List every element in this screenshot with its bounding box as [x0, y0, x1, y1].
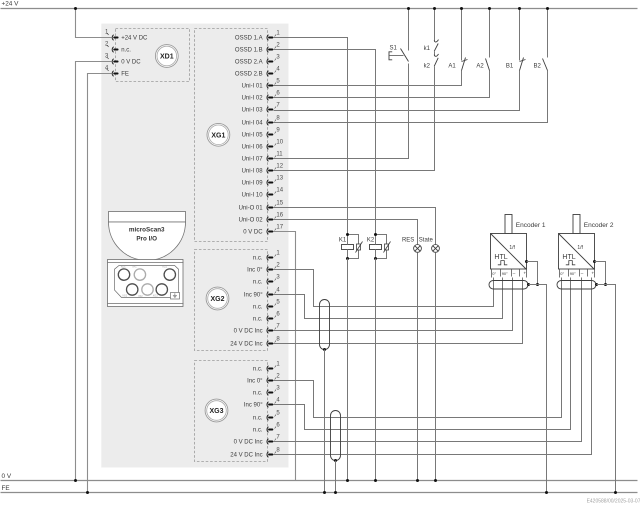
- svg-text:n.c.: n.c.: [253, 416, 263, 422]
- XG3 pin 5 n.c.: [253, 411, 280, 422]
- 0 V supply rail: [1, 473, 638, 480]
- Encoder 1 terminal strip: [492, 270, 527, 278]
- junction FE rail / XD1 FE: [86, 491, 89, 494]
- svg-text:FE: FE: [2, 485, 10, 492]
- wire +24V rail to B1: [519, 9, 521, 61]
- switch contact A1: [448, 58, 467, 71]
- wire B1 to XG1 input row y=110.0: [274, 71, 520, 111]
- svg-text:0 V DC Inc: 0 V DC Inc: [234, 440, 263, 446]
- svg-text:17: 17: [276, 225, 283, 231]
- svg-text:10: 10: [276, 140, 283, 146]
- wire XD1 pin 3 to 0V rail: [76, 62, 112, 481]
- svg-text:16: 16: [276, 213, 283, 219]
- node Encoder 2 housing shield tap: [593, 260, 596, 263]
- XG2 pin 1 n.c.: [253, 251, 280, 262]
- svg-text:Uni-I 08: Uni-I 08: [242, 169, 264, 175]
- Encoder 2 body: [559, 234, 595, 270]
- wire Uni-O 01 (XG1 pin 15) to State lamp: [274, 208, 436, 245]
- Encoder 2 cable shield: [557, 281, 596, 290]
- wire +24V rail to A1: [461, 9, 463, 61]
- XG1 pin 16 Uni-O 02: [239, 213, 284, 224]
- svg-text:Encoder 1: Encoder 1: [516, 222, 546, 229]
- svg-text:24 V DC Inc: 24 V DC Inc: [230, 342, 262, 348]
- svg-text:15: 15: [276, 201, 283, 207]
- svg-text:Uni-O 01: Uni-O 01: [239, 206, 264, 212]
- wire +24V rail to S1: [408, 9, 410, 51]
- wire XG2 cable shield to FE rail: [324, 350, 326, 493]
- node Encoder 2 shield junction: [604, 283, 607, 286]
- junction K2 / 0V rail: [374, 479, 377, 482]
- junction 0V rail / XD1 0VDC: [74, 479, 77, 482]
- wire XG1 pin 17 0VDC to 0V rail: [274, 232, 296, 481]
- wire Encoder 2 housing to shield node: [595, 262, 606, 285]
- junction Encoder 2 shield / FE rail: [614, 491, 617, 494]
- XG2 pin 5 n.c.: [253, 300, 280, 311]
- wire +24V rail to XD1 pin 1: [76, 9, 112, 38]
- switch contact B2: [534, 59, 548, 71]
- svg-text:–: –: [513, 271, 516, 276]
- svg-text:+24 V: +24 V: [2, 1, 20, 8]
- svg-text:State: State: [419, 237, 434, 243]
- svg-text:HTL: HTL: [494, 254, 507, 261]
- svg-text:A1: A1: [448, 63, 456, 69]
- switch contact A2: [476, 59, 489, 71]
- wire K2 to 0V rail: [375, 259, 377, 481]
- svg-text:Uni-I 02: Uni-I 02: [242, 96, 264, 102]
- cable shield encoder 2 cable at XG3: [331, 411, 341, 461]
- XD1 pin 4 FE: [105, 66, 129, 78]
- XG1 pin 4 OSSD 2.B: [235, 67, 280, 78]
- svg-text:OSSD 1.A: OSSD 1.A: [235, 36, 263, 42]
- svg-text:+: +: [524, 270, 527, 275]
- XG3 pin 4 Inc 90°: [244, 398, 281, 409]
- XG1 pin 3 OSSD 2.A: [235, 55, 280, 66]
- XG1 pin 1 OSSD 1.A: [235, 31, 280, 42]
- node shield XG2 cable: [323, 348, 326, 351]
- svg-text:Uni-I 09: Uni-I 09: [242, 181, 264, 187]
- svg-text:RES: RES: [402, 237, 414, 243]
- wire K1 to 0V rail: [347, 259, 349, 481]
- wire +24V rail to B2: [547, 9, 549, 58]
- wire OSSD 1.A (XG1 pin 1) to contactor K1: [274, 38, 348, 235]
- XG2 pin 8 24 V DC Inc: [230, 337, 280, 348]
- svg-text:k2: k2: [424, 63, 431, 69]
- wire XG3 pin 7 0VDC Inc to encoder 2: [274, 278, 582, 442]
- node K1 top junction: [346, 233, 349, 236]
- svg-text:XG2: XG2: [122, 295, 127, 298]
- wire k2 to Uni-I 08 (XG1 pin 12): [274, 67, 435, 171]
- XD1 pin 3 0 V DC: [105, 54, 141, 66]
- svg-text:E420588/00/2025-03-07: E420588/00/2025-03-07: [587, 499, 640, 505]
- svg-text:XG1: XG1: [211, 132, 225, 139]
- svg-text:XG1: XG1: [162, 265, 167, 268]
- svg-text:XG2: XG2: [210, 296, 224, 303]
- FE functional earth rail: [1, 485, 638, 493]
- XD1 pin 1 +24 V DC: [105, 30, 148, 42]
- svg-text:–: –: [581, 271, 584, 276]
- XG1 pin 15 Uni-O 01: [239, 201, 284, 212]
- svg-text:90°: 90°: [570, 271, 576, 276]
- XG3 pin 2 Inc 0°: [247, 374, 280, 385]
- svg-text:n.c.: n.c.: [253, 391, 263, 397]
- suppressor across K2: [376, 235, 391, 259]
- XG3 pin 8 24 V DC Inc: [230, 448, 280, 459]
- svg-text:11: 11: [276, 152, 283, 158]
- node Encoder 2 cable shield end: [595, 283, 598, 286]
- node K2 bottom junction: [374, 257, 377, 260]
- svg-text:A2: A2: [476, 63, 484, 69]
- XG3 pin 1 n.c.: [253, 362, 280, 373]
- svg-text:Inc 90°: Inc 90°: [244, 293, 263, 299]
- wire +24V rail to k1: [434, 9, 436, 42]
- XG1 pin 5 Uni-I 01: [242, 79, 281, 90]
- wire XG3 pin 4 Inc 90 to encoder 2: [274, 278, 571, 430]
- svg-text:XD1: XD1: [160, 54, 174, 61]
- svg-text:microScan3: microScan3: [129, 226, 165, 233]
- Encoder 1 body: [491, 234, 527, 270]
- svg-text:90°: 90°: [502, 271, 508, 276]
- switch contact B1: [506, 58, 526, 71]
- svg-text:Uni-I 10: Uni-I 10: [242, 193, 264, 199]
- Encoder 2 terminal strip: [560, 270, 595, 278]
- svg-text:HTL: HTL: [562, 254, 575, 261]
- svg-text:n.c.: n.c.: [253, 428, 263, 434]
- svg-text:K2: K2: [367, 238, 375, 244]
- suppressor across K1: [348, 235, 363, 259]
- XG1 pin 8 Uni-I 04: [242, 116, 281, 127]
- wire XG2 pin 8 24VDC Inc to encoder 1: [274, 278, 523, 344]
- XG2 pin 3 n.c.: [253, 275, 280, 286]
- connector XG2 dashed outline: [195, 250, 268, 351]
- XG1 pin 2 OSSD 1.B: [235, 43, 280, 54]
- node K1 bottom junction: [346, 257, 349, 260]
- svg-text:24 V DC Inc: 24 V DC Inc: [230, 453, 262, 459]
- junction +24V rail / XD1 supply: [74, 7, 77, 10]
- node Encoder 1 shield junction: [536, 283, 539, 286]
- svg-text:14: 14: [276, 188, 283, 194]
- svg-text:n.c.: n.c.: [253, 317, 263, 323]
- wire XG3 pin 8 24VDC Inc to encoder 2: [274, 278, 592, 455]
- XG1 pin 14 Uni-I 10: [242, 188, 284, 199]
- svg-text:13: 13: [276, 176, 283, 182]
- wire Encoder 2 shield to FE rail: [597, 285, 616, 493]
- wire Encoder 1 housing to shield node: [527, 262, 538, 285]
- svg-text:k1: k1: [424, 46, 431, 52]
- XG3 pin 7 0 V DC Inc: [234, 435, 281, 446]
- wire S1 to Uni-I 07 (XG1 pin 11): [274, 64, 409, 159]
- svg-text:B2: B2: [534, 63, 542, 69]
- wire A1 to XG1 input row y=85.7: [274, 71, 462, 86]
- svg-text:1/f: 1/f: [509, 245, 515, 251]
- Encoder 2 shaft: [573, 215, 580, 234]
- indicator lamp State: [419, 237, 440, 252]
- svg-text:OSSD 2.B: OSSD 2.B: [235, 72, 263, 78]
- contactor K2 coil: [367, 235, 382, 259]
- Encoder 1 cable shield: [489, 281, 528, 290]
- wire +24V rail to A2: [489, 9, 491, 58]
- wire OSSD 1.B (XG1 pin 2) to contactor K2: [274, 50, 376, 235]
- wire Encoder 1 shield to FE rail: [529, 285, 547, 493]
- svg-text:n.c.: n.c.: [121, 48, 131, 54]
- junction +24V rail / A2: [488, 7, 491, 10]
- svg-text:0 V DC: 0 V DC: [121, 60, 141, 66]
- junction +24V rail / A1: [460, 7, 463, 10]
- XG2 pin 4 Inc 90°: [244, 288, 281, 299]
- XG2 pin 6 n.c.: [253, 312, 280, 323]
- svg-text:n.c.: n.c.: [253, 305, 263, 311]
- scanner connector plate artwork: [108, 260, 184, 307]
- svg-text:FE: FE: [121, 72, 129, 78]
- junction XG2 shield / FE rail: [323, 491, 326, 494]
- svg-text:Uni-I 07: Uni-I 07: [242, 157, 264, 163]
- XG3 pin 6 n.c.: [253, 423, 280, 434]
- svg-text:B1: B1: [506, 63, 514, 69]
- svg-text:K1: K1: [339, 238, 347, 244]
- connector XG2 label circle: [206, 287, 229, 310]
- svg-text:XG3: XG3: [153, 295, 158, 298]
- XD1 pin 2 n.c.: [105, 42, 131, 54]
- connector XG3 label circle: [205, 399, 228, 422]
- wire XD1 pin 4 to FE rail: [88, 74, 112, 493]
- wire XG2 pin 7 0VDC Inc to encoder 1: [274, 278, 513, 331]
- connector XG1 dashed outline: [195, 29, 268, 242]
- junction K1 / 0V rail: [346, 479, 349, 482]
- svg-text:XF1: XF1: [132, 265, 137, 268]
- relay contact k1: [424, 40, 439, 52]
- svg-text:Inc 90°: Inc 90°: [244, 403, 263, 409]
- XG1 pin 7 Uni-I 03: [242, 103, 281, 114]
- wire XG3 cable shield to FE rail: [335, 461, 337, 493]
- svg-text:0 V DC Inc: 0 V DC Inc: [234, 329, 263, 335]
- svg-text:S1: S1: [390, 46, 398, 52]
- junction +24V rail / B2: [546, 7, 549, 10]
- node Encoder 1 housing shield tap: [525, 260, 528, 263]
- relay contact k2: [424, 54, 439, 69]
- XG1 pin 13 Uni-I 09: [242, 176, 284, 187]
- connector XD1 dashed outline: [116, 29, 190, 82]
- wire XG3 pin 2 Inc 0 to encoder 2: [274, 278, 562, 418]
- svg-text:Pro I/O: Pro I/O: [136, 235, 157, 242]
- connector XD1 label circle: [155, 45, 178, 68]
- cable shield encoder 1 cable at XG2: [320, 300, 330, 350]
- XG1 pin 12 Uni-I 08: [242, 164, 284, 175]
- svg-text:Uni-I 01: Uni-I 01: [242, 84, 264, 90]
- node shield XG3 cable: [334, 459, 337, 462]
- Encoder 1 shaft: [505, 215, 512, 234]
- wire Uni-O 02 (XG1 pin 16) to RES lamp: [274, 220, 418, 245]
- svg-text:OSSD 1.B: OSSD 1.B: [235, 48, 263, 54]
- svg-text:Inc 0°: Inc 0°: [247, 268, 263, 274]
- svg-text:+: +: [592, 270, 595, 275]
- junction RES / 0V rail: [416, 479, 419, 482]
- svg-text:XF2: XF2: [138, 295, 143, 298]
- wire XG2 pin 4 Inc 90 to encoder 1: [274, 278, 503, 319]
- +24 V supply rail: [1, 1, 638, 9]
- wire RES lamp to 0V rail: [417, 253, 419, 481]
- svg-text:Uni-O 02: Uni-O 02: [239, 218, 264, 224]
- svg-text:0°: 0°: [560, 271, 564, 276]
- XG2 pin 2 Inc 0°: [247, 263, 280, 274]
- XG1 pin 17 0 V DC: [243, 225, 283, 236]
- pushbutton S1: [389, 46, 409, 62]
- connector XG3 dashed outline: [195, 361, 268, 462]
- svg-text:Encoder 2: Encoder 2: [584, 222, 614, 229]
- svg-text:n.c.: n.c.: [253, 367, 263, 373]
- wire k1 to k2: [434, 52, 436, 56]
- scanner dome artwork: [109, 212, 186, 261]
- junction State / 0V rail: [434, 479, 437, 482]
- XG1 pin 10 Uni-I 06: [242, 140, 284, 151]
- svg-text:Uni-I 03: Uni-I 03: [242, 108, 264, 114]
- contactor K1 coil: [339, 235, 354, 259]
- svg-text:OSSD 2.A: OSSD 2.A: [235, 60, 263, 66]
- svg-text:0°: 0°: [492, 271, 496, 276]
- connector XG1 label circle: [207, 123, 230, 146]
- svg-text:0 V DC: 0 V DC: [243, 230, 263, 236]
- junction +24V rail / k1: [433, 7, 436, 10]
- XG1 pin 11 Uni-I 07: [242, 152, 284, 163]
- XG1 pin 6 Uni-I 02: [242, 91, 281, 102]
- junction +24V rail / S1: [407, 7, 410, 10]
- svg-text:0 V: 0 V: [2, 473, 12, 480]
- svg-text:Uni-I 06: Uni-I 06: [242, 145, 264, 151]
- svg-text:n.c.: n.c.: [253, 256, 263, 262]
- wire State lamp to 0V rail: [435, 253, 437, 481]
- svg-text:+24 V DC: +24 V DC: [121, 36, 148, 42]
- svg-text:1/f: 1/f: [577, 245, 583, 251]
- node Encoder 1 cable shield end: [527, 283, 530, 286]
- svg-text:Uni-I 05: Uni-I 05: [242, 133, 264, 139]
- junction XG3 shield / FE rail: [334, 491, 337, 494]
- svg-text:Uni-I 04: Uni-I 04: [242, 121, 264, 127]
- scanner device background: [101, 24, 288, 468]
- node K2 top junction: [374, 233, 377, 236]
- svg-text:XG3: XG3: [209, 408, 223, 415]
- junction Encoder 1 shield / FE rail: [545, 491, 548, 494]
- XG3 pin 3 n.c.: [253, 386, 280, 397]
- svg-text:n.c.: n.c.: [253, 280, 263, 286]
- svg-text:12: 12: [276, 164, 283, 170]
- XG1 pin 9 Uni-I 05: [242, 128, 281, 139]
- svg-text:Inc 0°: Inc 0°: [247, 379, 263, 385]
- wire A2 to XG1 input row y=97.8: [274, 71, 490, 98]
- svg-text:XD1: XD1: [121, 265, 126, 268]
- wire XG2 pin 2 Inc 0 to encoder 1: [274, 270, 494, 307]
- indicator lamp RES: [402, 237, 421, 252]
- XG2 pin 7 0 V DC Inc: [234, 324, 281, 335]
- wire B2 to XG1 input row y=122.1: [274, 71, 548, 123]
- junction +24V rail / B1: [518, 7, 521, 10]
